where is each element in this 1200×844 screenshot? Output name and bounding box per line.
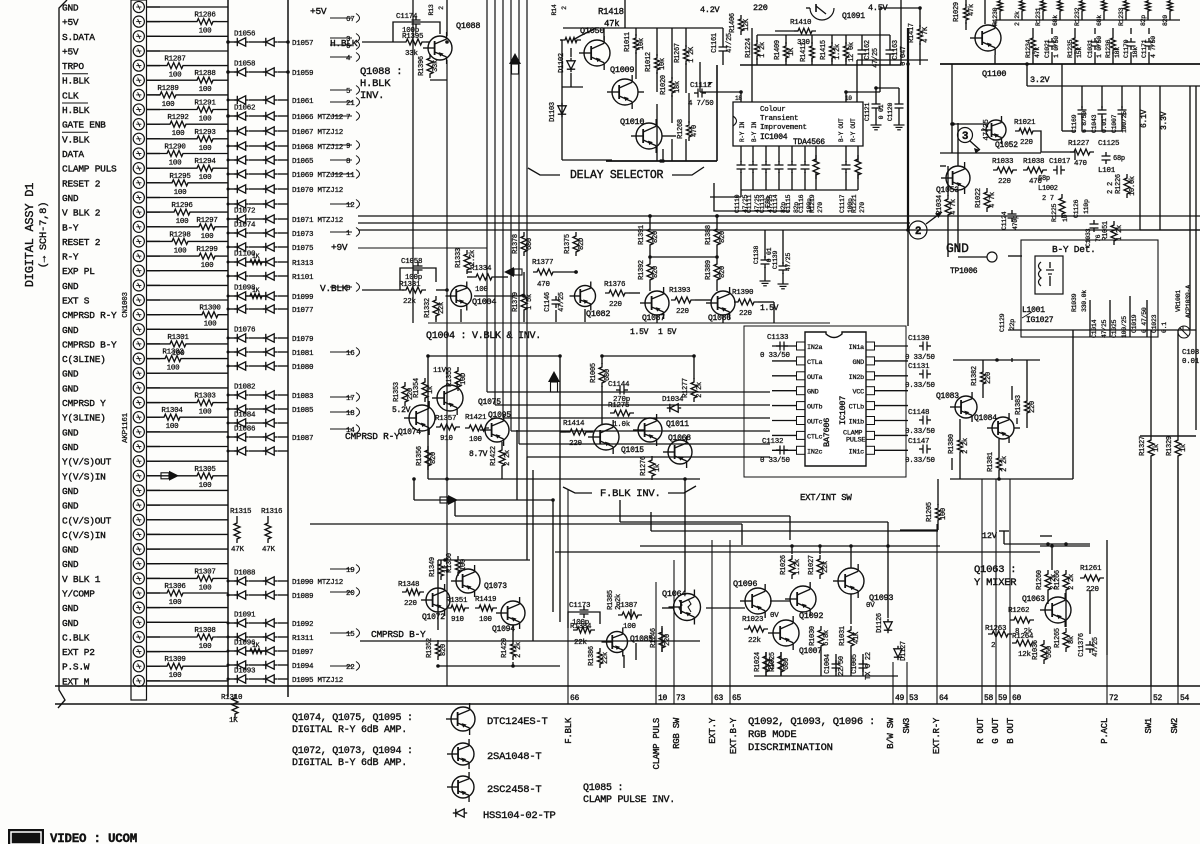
bus wires mid — [358, 215, 1200, 217]
svg-text:SW1: SW1 — [1144, 718, 1154, 733]
svg-text:Q1091: Q1091 — [842, 12, 865, 21]
IC1004 caps outline — [714, 183, 790, 211]
svg-text:R1275: R1275 — [608, 402, 630, 410]
resistor R1012 10k — [655, 54, 660, 74]
diode D1102 — [567, 61, 575, 69]
svg-text:G OUT: G OUT — [991, 717, 1001, 744]
transistor Q1053 — [946, 166, 970, 190]
resistor R1354 1k — [422, 378, 428, 402]
svg-text:68p: 68p — [1038, 175, 1050, 183]
diode pair — [228, 450, 237, 452]
svg-text:0.33/50: 0.33/50 — [905, 382, 936, 390]
svg-text:VCC: VCC — [853, 389, 865, 397]
svg-text:C103: C103 — [1182, 349, 1200, 357]
svg-text:100: 100 — [172, 130, 186, 138]
svg-text:C(V/S)IN: C(V/S)IN — [62, 530, 106, 541]
bus drop pin 53 — [906, 662, 908, 704]
svg-text:GND: GND — [62, 545, 79, 556]
svg-text:R1388: R1388 — [705, 225, 713, 245]
wires right verticals — [907, 230, 909, 326]
svg-text:54: 54 — [1180, 694, 1190, 703]
wire Q1085 — [635, 643, 637, 660]
svg-text:1K: 1K — [229, 717, 238, 725]
bus drop pin 64 — [936, 524, 938, 704]
svg-text:47/25: 47/25 — [1092, 637, 1100, 657]
svg-text:GND: GND — [62, 618, 79, 629]
svg-text:R1309: R1309 — [164, 656, 185, 664]
svg-text:D1087: D1087 — [292, 435, 313, 443]
transistor Q1064 — [674, 594, 701, 621]
svg-text:Q1085 :: Q1085 : — [583, 783, 623, 794]
svg-text:D1034: D1034 — [662, 396, 684, 404]
svg-text:2 2: 2 2 — [1107, 182, 1115, 194]
svg-text:22k: 22k — [574, 639, 588, 647]
svg-text:OUTb: OUTb — [807, 404, 822, 412]
svg-text:4: 4 — [346, 55, 351, 63]
svg-text:R1410: R1410 — [790, 19, 812, 27]
up arrow mid — [548, 371, 560, 382]
svg-text:C1014: C1014 — [1091, 319, 1098, 338]
svg-text:C1114: C1114 — [772, 194, 779, 213]
amp B-Y top wire — [438, 559, 530, 561]
wires center web — [455, 515, 790, 517]
wires F.BLK inv — [601, 356, 603, 364]
svg-text:CTLa: CTLa — [807, 359, 822, 367]
svg-text:R1334: R1334 — [470, 265, 492, 273]
svg-text:0 33/50: 0 33/50 — [760, 352, 791, 360]
transistor Q1092 — [790, 586, 816, 612]
capacitor C1007 100/25 — [1118, 109, 1127, 111]
svg-text:GND: GND — [853, 359, 865, 367]
svg-text:R1029: R1029 — [953, 2, 961, 22]
svg-text:R1236: R1236 — [1105, 39, 1112, 58]
svg-text:EXT.Y: EXT.Y — [708, 717, 718, 744]
svg-text:IN1c: IN1c — [849, 448, 864, 456]
svg-text:+9V: +9V — [331, 242, 348, 253]
svg-text:D1080: D1080 — [292, 364, 314, 372]
svg-text:0.33/50: 0.33/50 — [905, 428, 936, 436]
svg-text:R1234: R1234 — [1025, 39, 1032, 58]
resistor R1316 47k — [267, 516, 269, 519]
svg-text:C1004: C1004 — [824, 654, 832, 674]
svg-text:22k: 22k — [748, 637, 762, 645]
svg-text:R1012: R1012 — [645, 52, 653, 72]
transistor Q1083 — [955, 396, 977, 418]
svg-text:C1033: C1033 — [1085, 228, 1092, 247]
wire — [147, 489, 228, 491]
transistor Q1072 — [426, 588, 450, 612]
svg-text:GND: GND — [62, 603, 79, 614]
svg-text:DATA: DATA — [62, 149, 84, 160]
resistor R1395 33k — [402, 39, 426, 45]
svg-text:C1115: C1115 — [785, 194, 792, 213]
svg-text:2.2k: 2.2k — [469, 250, 477, 266]
svg-text:100: 100 — [479, 616, 493, 624]
capacitor C1148 0.33/50 — [922, 416, 924, 425]
circled 2 callout — [909, 221, 927, 239]
svg-text:R1389: R1389 — [705, 260, 713, 280]
capacitor C1130 0 33/50 — [922, 342, 924, 351]
svg-text:CMPRSD B-Y: CMPRSD B-Y — [62, 339, 117, 350]
IC1007 pin IN2c — [797, 446, 806, 454]
svg-text:R1411: R1411 — [800, 42, 808, 62]
svg-text:2: 2 — [915, 226, 921, 238]
svg-text:330.0k: 330.0k — [1081, 290, 1088, 312]
svg-text:4 7/50: 4 7/50 — [1150, 36, 1157, 58]
svg-text:100: 100 — [199, 174, 213, 182]
resistor R1389 820 — [714, 260, 720, 284]
svg-text:R1230: R1230 — [992, 7, 999, 26]
resistor R1412 10k — [844, 42, 849, 62]
svg-text:CMPRSD R-Y: CMPRSD R-Y — [62, 310, 117, 321]
svg-text:CLAMP PULSE INV.: CLAMP PULSE INV. — [583, 795, 675, 806]
wires delay selector — [561, 40, 563, 160]
svg-text:C.BLK: C.BLK — [62, 633, 90, 644]
svg-text:2 2k: 2 2k — [962, 438, 970, 454]
diode pair D1091 D1092 — [228, 622, 237, 624]
B-Y detector outer box — [1021, 240, 1158, 337]
svg-text:0V: 0V — [770, 612, 779, 620]
resistor R1350 100 — [456, 556, 461, 576]
svg-text:V.BLK: V.BLK — [320, 283, 348, 294]
svg-text:D1065: D1065 — [292, 158, 314, 166]
wire — [147, 563, 228, 565]
svg-text:C1133: C1133 — [767, 334, 789, 342]
wire — [147, 372, 228, 374]
capacitor C1116 100p — [804, 146, 806, 162]
diode D1034 — [670, 404, 678, 412]
capacitor C1144 270p — [619, 386, 621, 395]
resistor R1353 220 — [402, 382, 408, 406]
svg-text:10.0k: 10.0k — [1129, 176, 1137, 196]
diode D1103 — [558, 106, 566, 114]
transistor Q1091 circle — [810, 8, 834, 20]
svg-text:D1126: D1126 — [876, 613, 884, 633]
wire — [147, 328, 228, 330]
svg-text:220: 220 — [1029, 401, 1037, 413]
svg-text:82D: 82D — [578, 238, 586, 250]
svg-text:R1419: R1419 — [475, 596, 496, 604]
svg-text:IN1a: IN1a — [849, 344, 864, 352]
svg-text:22k: 22k — [403, 298, 417, 306]
svg-text:DTC124ES-T: DTC124ES-T — [487, 716, 548, 728]
svg-text:TDA4566: TDA4566 — [793, 138, 825, 147]
svg-text:B-Y: B-Y — [62, 222, 79, 233]
diode pair R1311 — [228, 636, 237, 638]
bus drop pin 59 — [995, 479, 997, 704]
resistor R1381 2.2k — [997, 454, 1002, 474]
svg-text:1k: 1k — [427, 386, 435, 394]
resistor R1293 100 — [147, 138, 193, 140]
svg-text:TRPO: TRPO — [62, 61, 84, 72]
svg-text:GND: GND — [62, 325, 79, 336]
svg-text:Q1075: Q1075 — [478, 398, 501, 407]
svg-text:DIGITAL ASSY D1: DIGITAL ASSY D1 — [23, 183, 37, 287]
svg-text:C1131: C1131 — [908, 363, 930, 371]
svg-text:100: 100 — [174, 189, 188, 197]
resistor R1297 100 — [147, 226, 195, 228]
svg-text:D1086: D1086 — [234, 426, 256, 434]
wire — [147, 504, 228, 506]
svg-text:3.2V: 3.2V — [1030, 75, 1051, 85]
svg-text:D1082: D1082 — [234, 384, 255, 392]
svg-text:220: 220 — [739, 310, 753, 318]
resistor R1309 100 — [147, 665, 163, 667]
svg-text:R1354: R1354 — [413, 378, 421, 398]
svg-text:C1058: C1058 — [401, 258, 422, 266]
wires IC1004 top — [740, 92, 742, 102]
diode pair D1068 MTZJ12 — [228, 145, 237, 147]
svg-text:58: 58 — [984, 694, 994, 703]
svg-text:R1377: R1377 — [532, 259, 553, 267]
svg-text:2 2k: 2 2k — [504, 450, 512, 466]
svg-text:GATE ENB: GATE ENB — [62, 120, 106, 131]
svg-text:R1023: R1023 — [742, 616, 764, 624]
IC1007 pin IN1c — [866, 446, 875, 454]
svg-text:100: 100 — [167, 365, 181, 373]
svg-text:2 2k: 2 2k — [696, 382, 704, 398]
svg-text:D1127: D1127 — [900, 641, 908, 661]
bus drop pin 52 — [1150, 460, 1152, 704]
svg-text:D1088: D1088 — [234, 570, 255, 578]
wires top mid bank — [740, 64, 901, 66]
bus drop pin 49 — [892, 662, 894, 704]
svg-text:R1381: R1381 — [987, 452, 995, 472]
resistor 1k D1098 row — [246, 294, 266, 299]
svg-text:220: 220 — [1020, 139, 1034, 147]
svg-text:1K: 1K — [788, 47, 796, 56]
svg-text:1.2k: 1.2k — [794, 559, 802, 575]
wire — [147, 431, 228, 433]
svg-text:Q1092: Q1092 — [799, 611, 823, 621]
svg-text:Y MIXER: Y MIXER — [974, 577, 1017, 589]
IC1007 pin CTLb — [866, 402, 875, 410]
capacitor C1146 47/25 — [552, 299, 561, 301]
svg-text:Q1088 :: Q1088 : — [360, 66, 402, 78]
svg-text:20: 20 — [346, 590, 355, 598]
svg-text:R1260: R1260 — [1036, 570, 1044, 590]
resistor R1415 1.2k — [830, 42, 835, 62]
svg-text:910: 910 — [451, 616, 465, 624]
resistor R1038 470 — [1023, 167, 1047, 173]
IC U1007 BA7606 box — [805, 332, 866, 466]
svg-text:R1300: R1300 — [199, 305, 221, 313]
bottom bus lower — [55, 703, 1200, 705]
svg-text:Q1011: Q1011 — [666, 420, 689, 429]
svg-text:Q1068: Q1068 — [668, 434, 691, 443]
capacitor C1110 47/25 — [740, 146, 742, 162]
svg-text:+5V: +5V — [62, 17, 79, 28]
svg-text:1 5V: 1 5V — [658, 328, 677, 337]
svg-text:CTLb: CTLb — [849, 404, 864, 412]
svg-text:Improvement: Improvement — [760, 124, 807, 132]
svg-text:RESET 2: RESET 2 — [62, 237, 101, 248]
svg-text:C1146: C1146 — [544, 292, 552, 312]
svg-text:C1116: C1116 — [798, 194, 805, 213]
svg-text:R1021: R1021 — [1014, 119, 1036, 127]
svg-text:0.1: 0.1 — [1161, 322, 1168, 333]
capacitor C1005 TX0.22 — [859, 663, 868, 665]
svg-text:(→ SCH-7,8): (→ SCH-7,8) — [38, 202, 50, 269]
svg-text:47/25: 47/25 — [1101, 319, 1108, 338]
svg-text:100: 100 — [162, 101, 176, 109]
svg-text:100: 100 — [169, 160, 183, 168]
svg-text:1 2k: 1 2k — [1116, 225, 1124, 241]
diode pair D1074 D1073 — [228, 232, 237, 234]
svg-text:Q1092, Q1093, Q1096 :: Q1092, Q1093, Q1096 : — [748, 716, 875, 728]
wire — [147, 519, 228, 521]
svg-text:D1097: D1097 — [292, 649, 313, 657]
svg-text:270: 270 — [859, 202, 866, 213]
svg-text:SW3: SW3 — [902, 718, 912, 733]
svg-text:EXP PL: EXP PL — [62, 266, 95, 277]
svg-text:1 5k: 1 5k — [526, 294, 534, 310]
svg-text:Y/COMP: Y/COMP — [62, 589, 95, 600]
transistor Q1074 — [409, 405, 435, 431]
resistor R1023 22k — [744, 626, 768, 632]
IC U1004 TDA4566 box — [733, 102, 863, 146]
svg-text:CMPRSD R-Y: CMPRSD R-Y — [345, 431, 400, 442]
svg-text:Q1004 : V.BLK & INV.: Q1004 : V.BLK & INV. — [426, 331, 541, 342]
resistor R1391 820 — [647, 225, 653, 249]
transistor Q1082 — [575, 286, 596, 307]
resistor R1388 820 — [714, 225, 720, 249]
diode pair D1076 D1079 — [228, 337, 237, 339]
transistor Q1095 — [485, 418, 509, 442]
svg-text:Q1083: Q1083 — [936, 392, 959, 401]
IC1004 outline left — [716, 65, 718, 161]
diode pair D1065 — [228, 159, 237, 161]
svg-text:D1072: D1072 — [234, 208, 255, 216]
svg-text:63: 63 — [714, 694, 724, 703]
svg-text:B-Y OUT: B-Y OUT — [838, 118, 845, 142]
circled 3 callout — [958, 128, 973, 143]
svg-text:EXT.R-Y: EXT.R-Y — [932, 717, 942, 754]
svg-text:R1333: R1333 — [455, 248, 463, 268]
resistor R1302 100 — [147, 358, 161, 360]
resistor R1421 100 — [465, 425, 489, 431]
svg-text:ACP1039-A: ACP1039-A — [1185, 285, 1192, 318]
resistor R1021 220 — [1015, 128, 1037, 134]
diode pair D1086 D1087 — [228, 436, 237, 438]
svg-text:49: 49 — [895, 694, 905, 703]
svg-text:CN1003: CN1003 — [122, 292, 130, 318]
resistor R1263 2k — [988, 631, 1012, 637]
svg-text:R1386: R1386 — [588, 646, 596, 666]
resistor R1296 100 — [147, 211, 170, 213]
resistor R1406 12K — [739, 15, 744, 35]
resistor R1329 1k — [1175, 436, 1181, 460]
bus drop pin 66 — [567, 490, 569, 704]
svg-text:R1387: R1387 — [616, 602, 637, 610]
svg-text:D1066 MTZJ12: D1066 MTZJ12 — [292, 114, 343, 122]
svg-text:RGB MODE: RGB MODE — [748, 729, 796, 741]
svg-text:B-Y IN: B-Y IN — [751, 121, 758, 142]
transistor Q1015 — [593, 424, 619, 450]
resistor R1422 2.2k — [499, 446, 505, 470]
svg-text:R1030: R1030 — [809, 626, 817, 646]
IC1007 pin OUTb — [797, 402, 806, 410]
svg-text:C1017: C1017 — [1049, 158, 1070, 166]
svg-text:IC1004: IC1004 — [760, 133, 788, 142]
svg-text:C(V/S)OUT: C(V/S)OUT — [62, 515, 112, 526]
capacitor C1139 47/25 — [779, 265, 788, 267]
resistor R1315 47k — [236, 516, 238, 519]
svg-text:C1161: C1161 — [711, 33, 719, 53]
svg-text:C1173: C1173 — [569, 602, 591, 610]
IC1007 pin IN1a — [866, 342, 875, 350]
bus drop pin 58 — [981, 479, 983, 704]
svg-text:100: 100 — [204, 321, 218, 329]
svg-text:DELAY SELECTOR: DELAY SELECTOR — [570, 169, 663, 182]
svg-text:R1310: R1310 — [221, 694, 243, 702]
svg-text:470: 470 — [537, 281, 551, 289]
label F.BLK INV — [563, 487, 592, 493]
svg-text:R1303: R1303 — [194, 393, 216, 401]
svg-text:D1085: D1085 — [292, 407, 314, 415]
svg-text:100: 100 — [475, 286, 489, 294]
diode pair D1084 — [228, 422, 237, 424]
svg-text:R1356: R1356 — [416, 446, 424, 466]
resistor R1020 18k — [670, 77, 675, 97]
svg-text:R1026: R1026 — [780, 555, 788, 575]
resistor R1333 2.2k — [464, 250, 470, 274]
svg-text:8k: 8k — [1068, 636, 1076, 644]
resistor R1351 910 — [447, 605, 469, 611]
svg-text:C1170: C1170 — [1123, 39, 1130, 58]
wire vertical x413 — [412, 0, 414, 323]
svg-text:R1396: R1396 — [418, 56, 426, 76]
arrow left mid — [504, 267, 514, 277]
black box VIDEO UCOM — [8, 829, 44, 844]
svg-text:R1311: R1311 — [292, 635, 314, 643]
svg-text:10: 10 — [1062, 214, 1069, 222]
svg-text:R1305: R1305 — [194, 466, 216, 474]
svg-text:R1235: R1235 — [1067, 39, 1074, 58]
svg-text:R1297: R1297 — [196, 217, 217, 225]
svg-text:18k: 18k — [1132, 47, 1139, 58]
svg-text:Y(3LINE): Y(3LINE) — [62, 413, 106, 424]
wire under C1169 bank — [1082, 130, 1122, 132]
wire y522 — [620, 521, 888, 523]
transistor Q1052 — [986, 120, 1006, 140]
svg-text:R1268: R1268 — [677, 119, 685, 139]
svg-text:R1376: R1376 — [604, 281, 626, 289]
resistor R1005 680 — [599, 363, 605, 387]
svg-text:R1034: R1034 — [936, 195, 944, 215]
svg-text:6 8/50: 6 8/50 — [1081, 111, 1088, 133]
svg-text:19: 19 — [346, 567, 355, 575]
svg-text:100: 100 — [174, 247, 188, 255]
svg-text:IC1007: IC1007 — [838, 396, 848, 425]
svg-text:R1011: R1011 — [624, 32, 632, 52]
svg-text:R1315: R1315 — [230, 508, 252, 516]
resistor R1356 820 — [425, 446, 431, 470]
svg-text:0 33/50: 0 33/50 — [760, 457, 791, 465]
resistor R1298 100 — [147, 240, 168, 242]
svg-text:R1393: R1393 — [669, 287, 691, 295]
svg-text:R1277: R1277 — [682, 378, 690, 398]
svg-text:R1101: R1101 — [292, 274, 314, 282]
svg-text:Q1100: Q1100 — [982, 69, 1006, 79]
svg-text:33k: 33k — [405, 50, 419, 58]
resistor R1221 270 — [857, 146, 859, 162]
svg-text:17: 17 — [346, 395, 355, 403]
diode pair D1061 — [228, 99, 237, 101]
svg-text:R1382: R1382 — [971, 366, 979, 386]
svg-text:R1384: R1384 — [570, 623, 592, 631]
IC1007 pin IN2a — [797, 342, 806, 350]
